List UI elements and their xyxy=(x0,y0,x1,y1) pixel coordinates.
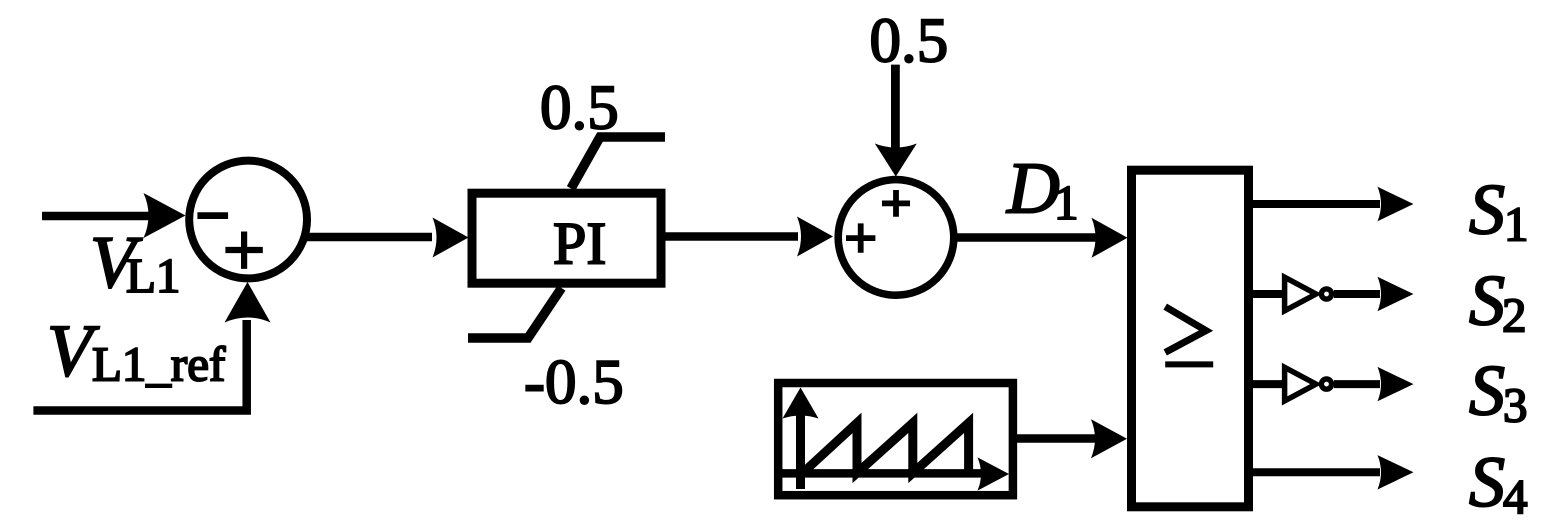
inverter U2 xyxy=(1285,277,1332,311)
sawtooth vertical axis xyxy=(783,388,819,490)
svg-text:D: D xyxy=(1006,148,1060,229)
label 0.5 upper xyxy=(540,72,619,142)
label S3 xyxy=(1469,351,1528,433)
svg-text:S: S xyxy=(1469,351,1505,431)
label S1 xyxy=(1469,169,1529,251)
sawtooth waveform xyxy=(803,423,969,473)
wire S3 output xyxy=(1334,367,1414,401)
summing junction 2 xyxy=(838,180,954,296)
label S2 xyxy=(1469,260,1527,342)
saturation limit lower xyxy=(468,288,562,338)
svg-text:2: 2 xyxy=(1502,287,1527,342)
wire into inverter S3 xyxy=(1249,380,1283,388)
sawtooth horizontal axis xyxy=(782,457,1009,490)
comparator block xyxy=(1132,170,1249,507)
svg-text:0.5: 0.5 xyxy=(540,72,619,142)
wire PI to sum2 xyxy=(665,217,833,257)
PI block xyxy=(472,193,661,283)
wire S2 output xyxy=(1334,277,1414,311)
wire into inverter S2 xyxy=(1249,290,1283,298)
svg-text:S: S xyxy=(1469,260,1505,340)
label V_L1_ref xyxy=(47,311,226,393)
label D1 xyxy=(1006,148,1079,230)
label V_L1 xyxy=(90,222,180,304)
wire V_L1 input xyxy=(42,193,186,238)
svg-text:0.5: 0.5 xyxy=(870,6,949,76)
inverter U3 xyxy=(1285,367,1332,401)
wire S4 output xyxy=(1249,455,1414,489)
summing junction 1 xyxy=(189,161,307,279)
svg-text:L1: L1 xyxy=(126,248,180,303)
svg-text:S: S xyxy=(1469,169,1505,249)
saturation limit upper xyxy=(571,137,665,189)
wire S1 output xyxy=(1249,187,1414,221)
svg-text:S: S xyxy=(1469,442,1505,522)
svg-text:-0.5: -0.5 xyxy=(524,347,624,417)
svg-text:L1_ref: L1_ref xyxy=(92,336,226,391)
svg-text:4: 4 xyxy=(1503,469,1528,524)
wire sawtooth to comparator xyxy=(1012,419,1127,458)
svg-text:1: 1 xyxy=(1504,196,1529,251)
sawtooth generator block xyxy=(778,383,1013,495)
svg-text:3: 3 xyxy=(1503,378,1528,433)
wire sum2 to comparator, node D1 xyxy=(954,218,1128,258)
label -0.5 xyxy=(524,347,624,417)
label 0.5 top xyxy=(870,6,949,76)
comparator >= symbol xyxy=(1165,307,1213,365)
wire 0.5 into sum2 xyxy=(875,65,917,177)
svg-text:PI: PI xyxy=(553,211,606,277)
wire V_L1_ref input xyxy=(33,282,270,415)
wire sum1 to PI xyxy=(306,218,469,258)
label S4 xyxy=(1469,442,1528,524)
svg-text:1: 1 xyxy=(1054,175,1079,230)
